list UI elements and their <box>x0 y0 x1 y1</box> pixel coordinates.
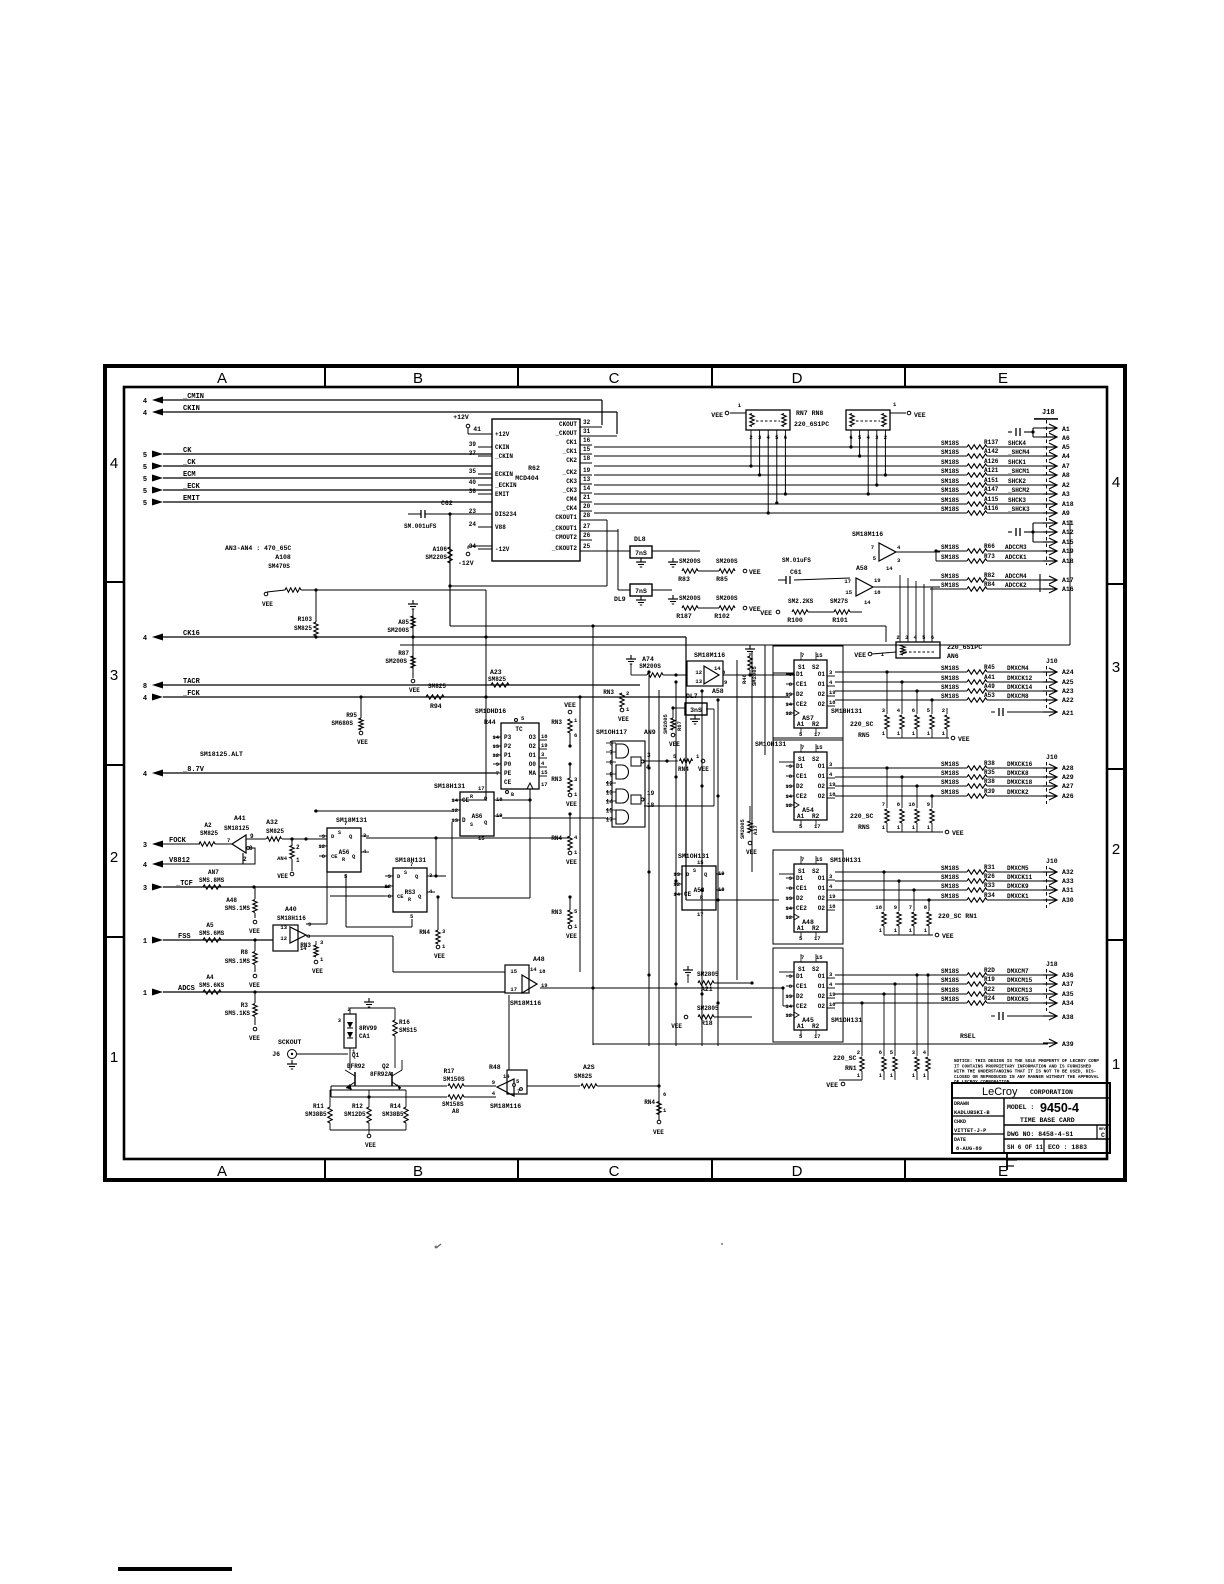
svg-text:R38: R38 <box>984 760 995 767</box>
svg-text:A56: A56 <box>339 849 350 856</box>
svg-text:4: 4 <box>143 695 147 703</box>
svg-text:DMXCM5: DMXCM5 <box>1007 865 1029 872</box>
svg-text:7: 7 <box>909 904 912 911</box>
svg-text:AN4: AN4 <box>277 855 288 862</box>
svg-text:DMXCK11: DMXCK11 <box>1007 874 1033 881</box>
svg-text:R44: R44 <box>484 719 496 726</box>
svg-text:SM220S: SM220S <box>425 554 447 561</box>
svg-text:SM18S: SM18S <box>941 459 959 466</box>
svg-text:CE1: CE1 <box>796 983 807 990</box>
svg-text:A4: A4 <box>206 974 214 981</box>
svg-text:_TCF: _TCF <box>175 880 193 888</box>
svg-text:A: A <box>217 370 227 387</box>
svg-text:J10: J10 <box>1046 858 1058 865</box>
svg-text:12: 12 <box>318 843 325 850</box>
svg-text:VEE: VEE <box>312 968 323 975</box>
svg-text:SMS.8MS: SMS.8MS <box>199 877 225 884</box>
svg-text:7: 7 <box>609 750 613 757</box>
svg-text:8RV99: 8RV99 <box>359 1025 377 1032</box>
svg-text:CE2: CE2 <box>796 905 807 912</box>
svg-text:A2S: A2S <box>583 1064 595 1071</box>
svg-text:VEE: VEE <box>942 933 954 940</box>
svg-text:_CKOUT2: _CKOUT2 <box>551 545 578 552</box>
svg-text:9450-4: 9450-4 <box>1040 1101 1079 1115</box>
svg-text:PE: PE <box>504 770 512 777</box>
svg-text:R38: R38 <box>984 778 995 785</box>
svg-text:A18: A18 <box>1062 558 1074 565</box>
svg-text:7: 7 <box>227 837 230 844</box>
svg-text:A18: A18 <box>1062 501 1074 508</box>
svg-text:A151: A151 <box>984 477 999 484</box>
svg-text:A26: A26 <box>1062 793 1074 800</box>
svg-text:_CK2: _CK2 <box>562 469 578 476</box>
svg-text:SMS.1KS: SMS.1KS <box>225 1010 251 1017</box>
svg-text:_8.7V: _8.7V <box>182 766 205 774</box>
svg-text:S2: S2 <box>812 756 820 763</box>
svg-text:14: 14 <box>785 1003 792 1010</box>
svg-text:CA1: CA1 <box>359 1033 370 1040</box>
svg-text:RN3: RN3 <box>551 719 562 726</box>
svg-text:O2: O2 <box>818 993 826 1000</box>
svg-text:14: 14 <box>606 799 614 806</box>
svg-text:19: 19 <box>583 467 591 474</box>
svg-text:O2: O2 <box>818 793 826 800</box>
svg-text:5: 5 <box>143 464 147 472</box>
svg-text:SM18S: SM18S <box>941 865 959 872</box>
svg-text:2: 2 <box>296 844 300 851</box>
svg-text:VEE: VEE <box>671 1023 682 1030</box>
svg-text:O2: O2 <box>818 701 826 708</box>
svg-text:D2: D2 <box>796 783 804 790</box>
svg-text:O0: O0 <box>529 761 537 768</box>
svg-text:O2: O2 <box>529 743 537 750</box>
svg-text:O2: O2 <box>818 691 826 698</box>
svg-text:12: 12 <box>384 883 391 890</box>
svg-text:18: 18 <box>583 455 591 462</box>
svg-text:A116: A116 <box>984 505 999 512</box>
svg-text:R73: R73 <box>984 553 995 560</box>
svg-text:DMXCK5: DMXCK5 <box>1007 996 1029 1003</box>
svg-text:SM18S: SM18S <box>941 977 959 984</box>
svg-text:2: 2 <box>857 1049 860 1056</box>
svg-text:R62: R62 <box>528 465 540 472</box>
svg-text:4: 4 <box>143 862 147 870</box>
svg-text:DATE: DATE <box>954 1137 966 1143</box>
svg-text:O1: O1 <box>818 773 826 780</box>
svg-text:CE: CE <box>504 779 512 786</box>
svg-text:D: D <box>792 1163 803 1180</box>
svg-text:R48: R48 <box>489 1064 501 1071</box>
svg-text:MA: MA <box>529 770 537 777</box>
svg-text:15: 15 <box>816 652 823 659</box>
svg-text:B: B <box>511 792 514 798</box>
svg-text:SM200S: SM200S <box>716 595 738 602</box>
svg-text:ADCCM3: ADCCM3 <box>1005 544 1027 551</box>
svg-text:SHCK2: SHCK2 <box>1008 478 1026 485</box>
svg-text:D1: D1 <box>796 875 804 882</box>
svg-text:VEE: VEE <box>249 1035 260 1042</box>
svg-text:R: R <box>408 897 411 903</box>
svg-text:_ECK: _ECK <box>182 483 201 491</box>
svg-text:A29: A29 <box>1062 774 1074 781</box>
svg-text:9: 9 <box>308 921 311 928</box>
svg-text:SM200S: SM200S <box>385 658 407 665</box>
svg-text:14: 14 <box>673 891 680 898</box>
svg-text:19: 19 <box>829 893 836 900</box>
svg-text:ECM: ECM <box>183 471 196 479</box>
svg-text:R137: R137 <box>984 439 999 446</box>
svg-text:A1: A1 <box>797 1023 805 1030</box>
svg-text:CK3: CK3 <box>566 478 577 485</box>
svg-text:19: 19 <box>874 577 881 584</box>
svg-text:A37: A37 <box>1062 981 1074 988</box>
svg-text:R39: R39 <box>984 788 995 795</box>
svg-text:9: 9 <box>789 875 792 882</box>
svg-text:6: 6 <box>879 1049 882 1056</box>
svg-text:SM2805: SM2805 <box>697 1005 719 1012</box>
svg-text:R: R <box>342 857 345 863</box>
svg-text:SM18M116: SM18M116 <box>694 652 725 659</box>
svg-text:SHCK3: SHCK3 <box>1008 497 1026 504</box>
svg-text:12: 12 <box>785 1012 792 1019</box>
svg-text:SMS.6MS: SMS.6MS <box>199 930 225 937</box>
svg-text:34: 34 <box>469 543 477 550</box>
svg-text:VEE: VEE <box>566 933 577 940</box>
svg-text:-12V: -12V <box>495 546 510 553</box>
svg-text:SM12D5: SM12D5 <box>344 1111 366 1118</box>
svg-text:8-AUG-89: 8-AUG-89 <box>956 1146 982 1152</box>
svg-text:ECO : 1883: ECO : 1883 <box>1048 1144 1087 1151</box>
svg-text:SM18125: SM18125 <box>224 825 250 832</box>
svg-text:40: 40 <box>469 479 477 486</box>
svg-text:SMS.1MS: SMS.1MS <box>225 958 251 965</box>
svg-text:R26: R26 <box>984 873 995 880</box>
svg-text:RNS: RNS <box>858 824 870 831</box>
svg-text:R2: R2 <box>812 925 820 932</box>
svg-text:A48: A48 <box>226 897 237 904</box>
svg-text:18: 18 <box>541 733 548 740</box>
svg-text:J18: J18 <box>1042 409 1055 417</box>
svg-text:VEE: VEE <box>618 716 629 723</box>
svg-text:A15: A15 <box>1062 539 1074 546</box>
svg-text:9: 9 <box>724 679 727 686</box>
svg-text:SHCK1: SHCK1 <box>1008 459 1026 466</box>
svg-text:O1: O1 <box>529 752 537 759</box>
svg-text:9: 9 <box>496 761 499 768</box>
svg-text:_SHCM1: _SHCM1 <box>1007 468 1030 475</box>
svg-text:S1: S1 <box>798 664 806 671</box>
svg-text:VEE: VEE <box>357 739 368 746</box>
svg-text:15: 15 <box>583 446 591 453</box>
svg-text:A37: A37 <box>752 825 759 835</box>
svg-text:A1: A1 <box>797 925 805 932</box>
svg-text:RN5: RN5 <box>858 732 870 739</box>
svg-text:ADCCK1: ADCCK1 <box>1005 554 1027 561</box>
svg-text:VITTET-J-P: VITTET-J-P <box>954 1128 986 1134</box>
svg-text:SM18S: SM18S <box>941 497 959 504</box>
svg-text:R19: R19 <box>984 976 995 983</box>
svg-text:SM1OH131: SM1OH131 <box>830 857 861 864</box>
svg-text:R11: R11 <box>313 1103 324 1110</box>
svg-text:DMXCK14: DMXCK14 <box>1007 684 1033 691</box>
svg-text:DL8: DL8 <box>634 536 646 543</box>
svg-text:A32: A32 <box>1062 869 1074 876</box>
svg-text:_SHCM2: _SHCM2 <box>1007 487 1030 494</box>
svg-text:SM18S: SM18S <box>941 874 959 881</box>
svg-text:VEE: VEE <box>958 736 970 743</box>
svg-text:RN3: RN3 <box>551 776 562 783</box>
svg-text:VEE: VEE <box>749 569 761 576</box>
svg-text:1: 1 <box>143 938 147 946</box>
svg-text:12: 12 <box>451 807 458 814</box>
svg-text:17: 17 <box>478 785 485 792</box>
svg-text:5: 5 <box>143 476 147 484</box>
svg-text:VEE: VEE <box>826 1082 838 1089</box>
svg-text:Q1: Q1 <box>352 1052 360 1059</box>
svg-text:A35: A35 <box>1062 991 1074 998</box>
svg-text:_CKIN: _CKIN <box>494 453 513 460</box>
svg-text:_FCK: _FCK <box>182 690 201 698</box>
svg-text:SM2.2KS: SM2.2KS <box>788 598 814 605</box>
svg-text:13: 13 <box>280 924 287 931</box>
svg-text:J10: J10 <box>1046 658 1058 665</box>
svg-text:CE2: CE2 <box>796 701 807 708</box>
svg-text:4: 4 <box>110 455 118 472</box>
svg-text:6: 6 <box>574 732 577 739</box>
svg-text:DMXCK9: DMXCK9 <box>1007 883 1029 890</box>
svg-text:A8: A8 <box>452 1108 460 1115</box>
svg-text:R66: R66 <box>984 543 995 550</box>
svg-text:D: D <box>462 817 466 824</box>
svg-text:R14: R14 <box>390 1103 401 1110</box>
svg-text:220_6S1PC: 220_6S1PC <box>794 421 829 428</box>
svg-text:35: 35 <box>469 468 477 475</box>
svg-text:SM18S: SM18S <box>941 789 959 796</box>
svg-text:B: B <box>413 370 423 387</box>
svg-text:DMXCK1: DMXCK1 <box>1007 893 1029 900</box>
svg-text:SM18S: SM18S <box>941 761 959 768</box>
svg-text:14: 14 <box>583 485 591 492</box>
svg-text:VEE: VEE <box>854 652 866 659</box>
svg-text:17: 17 <box>606 817 614 824</box>
svg-text:R45: R45 <box>984 664 995 671</box>
svg-text:13: 13 <box>695 678 702 685</box>
svg-text:DWG NO: 8458-4-S1: DWG NO: 8458-4-S1 <box>1007 1131 1073 1138</box>
svg-text:SM18S: SM18S <box>941 449 959 456</box>
svg-text:O1: O1 <box>818 875 826 882</box>
svg-text:A23: A23 <box>1062 688 1074 695</box>
svg-text:A41: A41 <box>984 674 995 681</box>
svg-text:SM200S: SM200S <box>679 558 701 565</box>
svg-text:P0: P0 <box>504 761 512 768</box>
svg-text:SM825: SM825 <box>294 625 312 632</box>
svg-text:SM18S: SM18S <box>941 968 959 975</box>
svg-text:J6: J6 <box>272 1051 280 1058</box>
svg-text:R2: R2 <box>812 721 820 728</box>
svg-text:37: 37 <box>469 450 477 457</box>
svg-text:TACR: TACR <box>183 678 201 686</box>
svg-text:R22: R22 <box>984 986 995 993</box>
svg-text:A11: A11 <box>1062 520 1074 527</box>
svg-text:ADCCM4: ADCCM4 <box>1005 573 1027 580</box>
svg-text:D2: D2 <box>796 993 804 1000</box>
svg-text:A38: A38 <box>1062 1014 1074 1021</box>
svg-text:17: 17 <box>814 1033 821 1040</box>
svg-text:CE: CE <box>397 893 404 900</box>
svg-text:12: 12 <box>785 710 792 717</box>
svg-text:CE1: CE1 <box>796 773 807 780</box>
svg-text:B: B <box>413 1163 423 1180</box>
svg-text:15: 15 <box>816 954 823 961</box>
svg-text:14: 14 <box>492 734 499 741</box>
svg-text:32: 32 <box>583 419 591 426</box>
svg-text:O1: O1 <box>818 973 826 980</box>
svg-text:25: 25 <box>583 543 591 550</box>
svg-text:R2: R2 <box>812 1023 820 1030</box>
svg-text:EMIT: EMIT <box>183 495 200 503</box>
svg-text:SM825: SM825 <box>428 683 446 690</box>
svg-text:R100: R100 <box>787 617 803 624</box>
svg-text:VEE: VEE <box>698 766 709 773</box>
svg-text:C61: C61 <box>790 569 802 576</box>
svg-text:13: 13 <box>785 783 792 790</box>
svg-text:1: 1 <box>296 857 300 864</box>
svg-text:CK16: CK16 <box>183 630 200 638</box>
svg-text:VEE: VEE <box>277 873 288 880</box>
svg-text:12: 12 <box>785 802 792 809</box>
svg-text:1: 1 <box>110 1049 118 1066</box>
svg-text:S: S <box>404 870 407 876</box>
svg-text:CE1: CE1 <box>796 885 807 892</box>
svg-text:VEE: VEE <box>749 606 761 613</box>
svg-text:AS6: AS6 <box>472 813 483 820</box>
svg-text:R35: R35 <box>984 769 995 776</box>
svg-text:9: 9 <box>789 973 792 980</box>
svg-text:18: 18 <box>875 904 882 911</box>
svg-text:VEE: VEE <box>434 953 445 960</box>
svg-text:220_SC: 220_SC <box>850 721 874 728</box>
svg-text:220_SC: 220_SC <box>850 813 874 820</box>
svg-text:SM18S: SM18S <box>941 684 959 691</box>
svg-text:38: 38 <box>469 488 477 495</box>
svg-text:O1: O1 <box>818 885 826 892</box>
svg-text:19: 19 <box>829 991 836 998</box>
svg-text:SM1OH117: SM1OH117 <box>596 729 627 736</box>
svg-text:RN3: RN3 <box>603 689 614 696</box>
svg-text:DMXCK8: DMXCK8 <box>1007 770 1029 777</box>
svg-text:R102: R102 <box>714 613 730 620</box>
svg-text:19: 19 <box>718 870 725 877</box>
svg-text:SM158S: SM158S <box>442 1101 464 1108</box>
svg-text:7: 7 <box>801 744 804 751</box>
svg-text:CKIN: CKIN <box>495 444 510 451</box>
svg-text:13: 13 <box>492 743 499 750</box>
svg-text:KADLUBSKI-B: KADLUBSKI-B <box>954 1110 990 1116</box>
svg-text:SM200S: SM200S <box>716 558 738 565</box>
svg-text:A24: A24 <box>1062 669 1074 676</box>
svg-text:17: 17 <box>814 731 821 738</box>
svg-text:18: 18 <box>539 968 546 975</box>
svg-text:SM200S: SM200S <box>387 627 409 634</box>
svg-text:18: 18 <box>829 1001 836 1008</box>
svg-text:CLOSED OR REPRODUCED IN ANY MA: CLOSED OR REPRODUCED IN ANY MANNER WITHO… <box>954 1075 1099 1080</box>
svg-text:12: 12 <box>492 752 499 759</box>
svg-text:DRAWN: DRAWN <box>954 1101 969 1107</box>
svg-text:5: 5 <box>143 500 147 508</box>
svg-text:D2: D2 <box>796 691 804 698</box>
svg-text:CM4: CM4 <box>566 496 577 503</box>
svg-text:CORPORATION: CORPORATION <box>1030 1089 1073 1096</box>
svg-text:4: 4 <box>143 398 147 406</box>
svg-text:A58: A58 <box>856 565 868 572</box>
svg-text:220_SC: 220_SC <box>833 1055 857 1062</box>
svg-text:S1: S1 <box>798 966 806 973</box>
svg-text:C62: C62 <box>441 500 453 507</box>
svg-text:6: 6 <box>912 707 915 714</box>
svg-text:A21: A21 <box>1062 710 1074 717</box>
svg-text:VEE: VEE <box>653 1129 664 1136</box>
svg-text:13: 13 <box>785 993 792 1000</box>
svg-text:D: D <box>792 370 803 387</box>
svg-text:R95: R95 <box>346 712 357 719</box>
svg-text:20: 20 <box>583 503 591 510</box>
svg-text:1: 1 <box>1112 1056 1120 1073</box>
svg-text:R84: R84 <box>984 581 995 588</box>
svg-text:O2: O2 <box>818 783 826 790</box>
svg-text:+12V: +12V <box>453 414 469 421</box>
svg-text:31: 31 <box>583 428 591 435</box>
svg-text:17: 17 <box>697 911 704 918</box>
svg-text:FSS: FSS <box>178 933 191 941</box>
svg-text:A7: A7 <box>1062 463 1070 470</box>
svg-text:R18: R18 <box>701 1020 713 1027</box>
svg-text:D1: D1 <box>796 763 804 770</box>
svg-text:2: 2 <box>896 634 899 641</box>
svg-text:SM18H116: SM18H116 <box>277 915 306 922</box>
svg-text:_CK1: _CK1 <box>562 448 578 455</box>
svg-text:RSEL: RSEL <box>960 1033 976 1040</box>
svg-text:7nS: 7nS <box>635 588 647 595</box>
svg-text:17: 17 <box>510 986 517 993</box>
svg-text:4: 4 <box>143 635 147 643</box>
svg-text:14: 14 <box>864 599 871 606</box>
svg-text:R87: R87 <box>398 650 409 657</box>
svg-text:19: 19 <box>496 812 503 819</box>
svg-text:A142: A142 <box>984 448 999 455</box>
svg-text:SM825: SM825 <box>488 676 506 683</box>
svg-text:VEE: VEE <box>914 412 926 419</box>
svg-text:A40: A40 <box>285 906 297 913</box>
svg-text:15: 15 <box>606 808 614 815</box>
svg-text:SM825: SM825 <box>266 828 284 835</box>
svg-text:E: E <box>998 370 1008 387</box>
svg-text:A9: A9 <box>1062 510 1070 517</box>
svg-text:CHKD: CHKD <box>954 1119 966 1125</box>
svg-text:A8: A8 <box>1062 472 1070 479</box>
svg-text:9: 9 <box>894 904 897 911</box>
svg-text:7: 7 <box>801 856 804 863</box>
svg-text:41: 41 <box>473 426 481 433</box>
svg-text:SM18H131: SM18H131 <box>434 783 465 790</box>
svg-text:SM38B5: SM38B5 <box>305 1111 327 1118</box>
svg-text:A30: A30 <box>1062 897 1074 904</box>
svg-text:DMXCM13: DMXCM13 <box>1007 987 1033 994</box>
svg-text:A126: A126 <box>984 458 999 465</box>
svg-text:12: 12 <box>785 914 792 921</box>
svg-text:VEE: VEE <box>262 601 273 608</box>
svg-text:CKOUT: CKOUT <box>559 421 577 428</box>
svg-text:15: 15 <box>510 968 517 975</box>
